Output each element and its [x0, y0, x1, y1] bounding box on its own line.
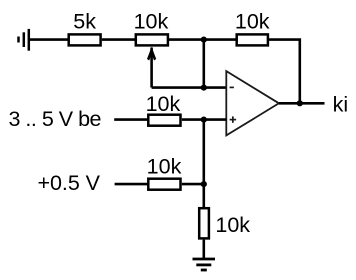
node junction B	[201, 85, 207, 91]
svg-text:5k: 5k	[73, 9, 96, 33]
node junction A	[201, 37, 207, 43]
node junction D	[201, 181, 207, 187]
resistor R3	[148, 115, 180, 126]
wire R5 to GND2	[203, 240, 206, 258]
wire junction A down to junction B	[203, 40, 206, 88]
resistor R1	[69, 34, 101, 45]
node junction C	[201, 117, 207, 123]
ground GND1	[19, 29, 29, 51]
svg-text:ki: ki	[333, 92, 349, 116]
resistor R5	[199, 208, 209, 238]
wire input be to R3	[114, 118, 147, 121]
svg-text:10k: 10k	[147, 155, 182, 179]
potentiometer P1 wiper arrow	[147, 47, 156, 88]
resistor R4	[148, 179, 180, 190]
node output	[297, 100, 303, 106]
wire input 0.5V to R4	[115, 183, 148, 186]
svg-text:10k: 10k	[235, 9, 270, 33]
wire R3 to op-amp non-inverting input	[182, 118, 227, 121]
wire P1 to R2	[169, 38, 237, 41]
wire op-amp output	[279, 102, 325, 105]
ground GND2	[193, 259, 216, 270]
wire R2 to output node	[268, 40, 300, 104]
op-amp U1	[226, 71, 279, 135]
wire R1 to P1	[102, 38, 136, 41]
wire GND1 to R1	[29, 38, 69, 41]
wire junction C down to R5	[203, 120, 206, 208]
svg-text:10k: 10k	[215, 213, 250, 237]
svg-text:+0.5 V: +0.5 V	[38, 171, 101, 195]
potentiometer P1 body	[136, 34, 168, 45]
svg-text:10k: 10k	[134, 9, 169, 33]
resistor R2	[237, 34, 268, 45]
svg-text:10k: 10k	[146, 92, 181, 116]
wire R4 to junction D	[182, 183, 204, 186]
svg-text:3 .. 5 V be: 3 .. 5 V be	[9, 107, 102, 131]
wire wiper to op-amp inverting input	[152, 86, 227, 89]
